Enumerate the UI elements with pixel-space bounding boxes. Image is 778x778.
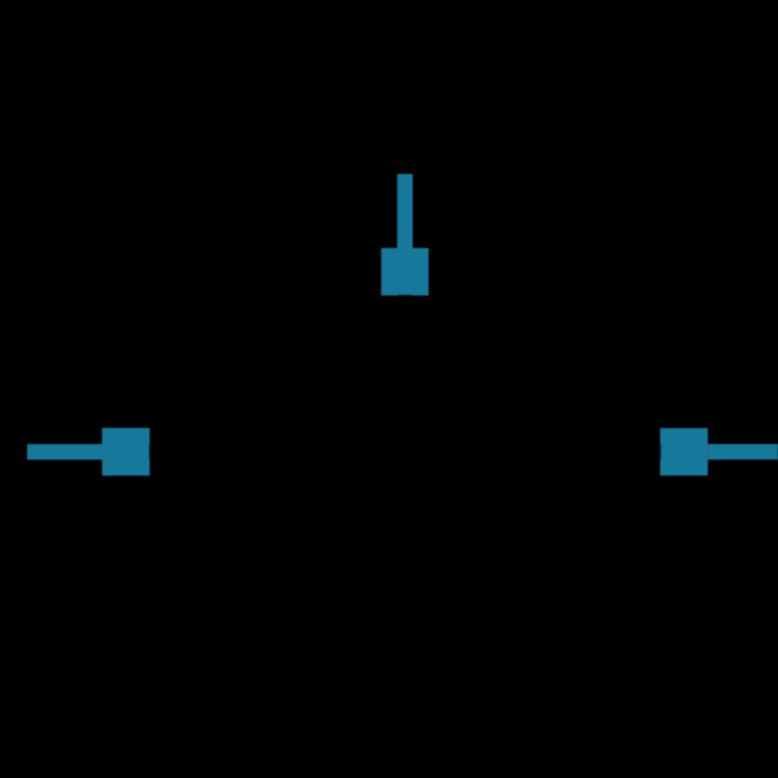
wire (hidden body lead crossing pin 1 pad right edge) bbox=[149, 444, 151, 459]
transistor Q1 pin 1 (left) lead wire bbox=[27, 444, 103, 460]
transistor Q1 pin 2 (top) lead wire bbox=[397, 174, 413, 250]
transistor Q1 pin 1 (left) pad bbox=[102, 428, 150, 476]
wire (hidden body lead crossing pin 3 pad left edge) bbox=[659, 444, 661, 459]
transistor Q1 pin 2 (top) pad bbox=[381, 248, 428, 296]
wire (hidden body lead crossing pin 2 pad bottom edge) bbox=[397, 295, 413, 297]
transistor Q1 pin 3 (right) pad bbox=[660, 428, 708, 475]
transistor Q1 pin 3 (right) lead wire bbox=[708, 444, 778, 460]
